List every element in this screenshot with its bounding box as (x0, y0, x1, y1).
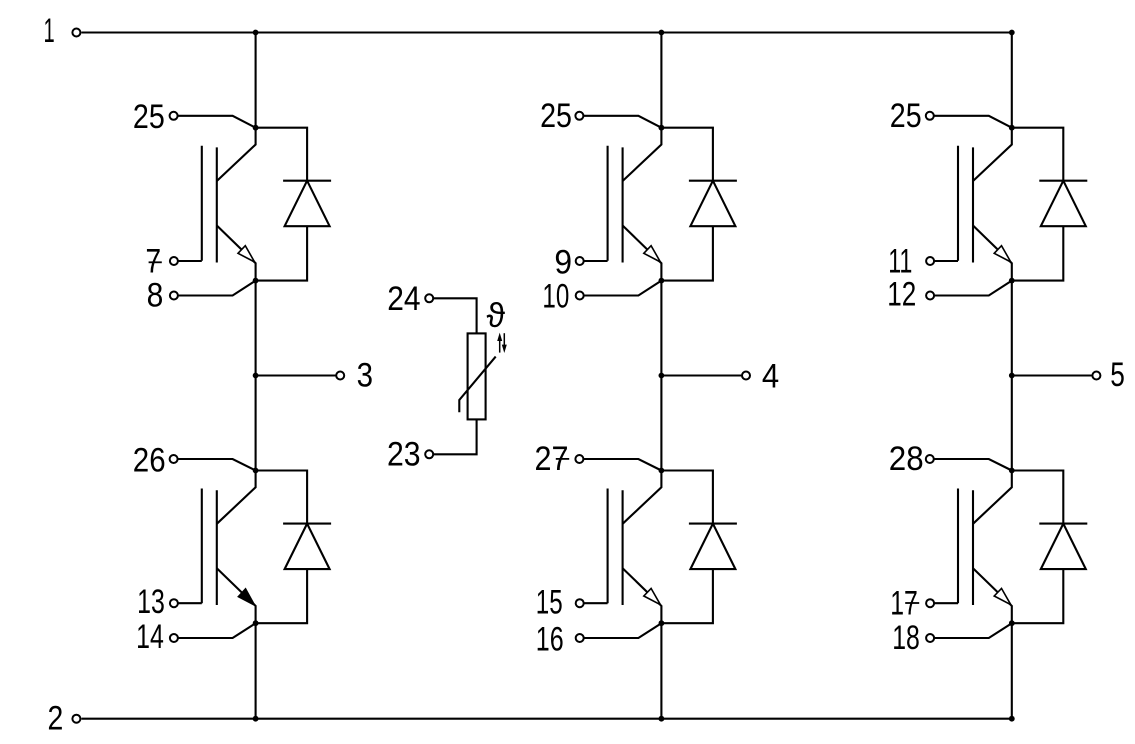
thermistor R-NTC body (468, 333, 486, 419)
transistor IGBT top leg3 (958, 128, 1012, 281)
wire gate pin to collector node (top leg2) (583, 116, 661, 128)
pin collector-side terminal circle top leg1 (170, 112, 178, 120)
svg-text:12: 12 (887, 276, 916, 314)
wire bottom emitter to DC- bus leg1 (255, 623, 257, 719)
pin aux emitter terminal circle top leg3 (926, 292, 934, 300)
pin aux emitter terminal circle bottom leg3 (926, 634, 934, 642)
label 17 crossbar (905, 602, 919, 604)
transistor IGBT top leg1 (202, 128, 256, 281)
transistor IGBT bottom leg1 (202, 471, 256, 624)
svg-text:8: 8 (147, 277, 164, 315)
pin gate terminal circle top leg2 (576, 257, 584, 265)
pin 2 terminal circle (72, 715, 80, 723)
svg-text:23: 23 (387, 435, 421, 473)
label 27 crossbar (556, 458, 569, 460)
pin phase output terminal circle leg1 (336, 372, 344, 380)
pin phase output terminal circle leg3 (1092, 372, 1100, 380)
wire gate pin to collector node (bottom leg2) (583, 459, 661, 471)
node DC- bus / leg1 (253, 716, 259, 722)
wire gate terminal bottom leg1 (178, 602, 202, 604)
wire DC+ bus to top collector leg3 (1011, 33, 1013, 128)
wire gate pin to collector node (bottom leg1) (178, 459, 256, 471)
svg-text:2: 2 (48, 699, 64, 737)
wire gate terminal top leg2 (584, 260, 608, 262)
pin gate terminal circle bottom leg2 (576, 599, 584, 607)
diode freewheel top leg1 (256, 128, 332, 281)
diode freewheel top leg2 (661, 128, 737, 281)
svg-text:24: 24 (387, 280, 420, 318)
node collector top leg1 (253, 125, 259, 131)
diode freewheel bottom leg3 (1012, 471, 1088, 624)
node phase output leg1 (253, 373, 259, 379)
node phase output leg2 (659, 373, 665, 379)
pin 23 terminal circle (425, 450, 433, 458)
svg-text:14: 14 (136, 618, 164, 656)
wire bottom emitter to DC- bus leg2 (660, 623, 662, 719)
pin collector-side terminal circle top leg3 (926, 112, 934, 120)
node collector bottom leg2 (659, 468, 665, 474)
node DC+ bus / leg1 (253, 30, 259, 36)
svg-text:4: 4 (762, 358, 779, 396)
wire aux emitter terminal top leg2 (584, 281, 662, 296)
pin 24 terminal circle (425, 294, 433, 302)
node DC+ bus / leg2 (659, 30, 665, 36)
svg-text:3: 3 (357, 357, 373, 395)
svg-text:ϑ: ϑ (487, 297, 506, 335)
node DC- bus / leg3 (1009, 716, 1015, 722)
svg-text:5: 5 (1110, 356, 1125, 394)
pin gate terminal circle bottom leg3 (926, 599, 934, 607)
thermistor up/down arrows (497, 333, 507, 353)
pin aux emitter terminal circle bottom leg1 (170, 634, 178, 642)
pin collector-side terminal circle bottom leg3 (926, 455, 934, 463)
node emitter bottom leg1 (253, 620, 259, 626)
svg-text:15: 15 (536, 584, 563, 622)
svg-text:25: 25 (540, 97, 572, 135)
node DC- bus / leg2 (659, 716, 665, 722)
node collector top leg3 (1009, 125, 1015, 131)
svg-text:9: 9 (554, 243, 572, 281)
svg-text:1: 1 (44, 12, 55, 50)
wire pin 24 to thermistor (434, 298, 477, 333)
wire aux emitter terminal bottom leg2 (584, 623, 662, 638)
node emitter top leg3 (1009, 278, 1015, 284)
pin collector-side terminal circle bottom leg1 (170, 455, 178, 463)
transistor IGBT top leg2 (608, 128, 662, 281)
wire gate pin to collector node (bottom leg3) (934, 459, 1012, 471)
node phase output leg3 (1009, 373, 1015, 379)
wire phase node to output terminal leg2 (661, 374, 742, 376)
wire top emitter to phase node leg2 (660, 281, 662, 471)
wire phase node to output terminal leg3 (1012, 374, 1093, 376)
svg-text:28: 28 (889, 440, 924, 478)
wire gate pin to collector node (top leg1) (178, 116, 256, 128)
node DC+ bus / leg3 (1009, 30, 1015, 36)
wire aux emitter terminal top leg1 (178, 281, 256, 296)
transistor IGBT bottom leg2 (608, 471, 662, 624)
wire gate terminal top leg1 (178, 260, 202, 262)
pin gate terminal circle top leg3 (926, 257, 934, 265)
wire DC+ bus (pin 1) (81, 31, 1011, 33)
pin 1 terminal circle (72, 29, 80, 37)
wire phase node to output terminal leg1 (256, 374, 337, 376)
diode freewheel bottom leg1 (256, 471, 332, 624)
wire DC- bus (pin 2) (81, 718, 1011, 720)
pin phase output terminal circle leg2 (742, 372, 750, 380)
wire DC+ bus to top collector leg1 (255, 33, 257, 128)
label 7 crossbar (149, 261, 162, 263)
thermistor NTC stroke (459, 357, 495, 413)
wire DC+ bus to top collector leg2 (660, 33, 662, 128)
svg-text:26: 26 (133, 441, 166, 479)
wire top emitter to phase node leg1 (255, 281, 257, 471)
node collector bottom leg1 (253, 468, 259, 474)
pin gate terminal circle top leg1 (170, 257, 178, 265)
wire bottom emitter to DC- bus leg3 (1011, 623, 1013, 719)
svg-text:10: 10 (542, 278, 569, 316)
transistor IGBT bottom leg3 (958, 471, 1012, 624)
node emitter bottom leg2 (659, 620, 665, 626)
wire gate terminal bottom leg3 (934, 602, 958, 604)
node emitter bottom leg3 (1009, 620, 1015, 626)
wire aux emitter terminal bottom leg3 (934, 623, 1012, 638)
pin aux emitter terminal circle bottom leg2 (576, 634, 584, 642)
diode freewheel top leg3 (1012, 128, 1088, 281)
node collector bottom leg3 (1009, 468, 1015, 474)
wire aux emitter terminal top leg3 (934, 281, 1012, 296)
wire top emitter to phase node leg3 (1011, 281, 1013, 471)
diode freewheel bottom leg2 (661, 471, 737, 624)
pin collector-side terminal circle top leg2 (575, 112, 583, 120)
svg-text:25: 25 (133, 98, 165, 136)
pin aux emitter terminal circle top leg2 (576, 292, 584, 300)
wire gate terminal bottom leg2 (584, 602, 608, 604)
node emitter top leg2 (659, 278, 665, 284)
node collector top leg2 (659, 125, 665, 131)
node emitter top leg1 (253, 278, 259, 284)
wire gate pin to collector node (top leg3) (934, 116, 1012, 128)
svg-text:25: 25 (890, 97, 922, 135)
svg-text:13: 13 (137, 583, 165, 621)
svg-text:16: 16 (536, 620, 564, 658)
pin gate terminal circle bottom leg1 (170, 599, 178, 607)
wire thermistor to pin 23 (434, 419, 477, 454)
wire gate terminal top leg3 (934, 260, 958, 262)
pin aux emitter terminal circle top leg1 (170, 292, 178, 300)
wire aux emitter terminal bottom leg1 (178, 623, 256, 638)
pin collector-side terminal circle bottom leg2 (575, 455, 583, 463)
svg-text:18: 18 (892, 619, 920, 657)
